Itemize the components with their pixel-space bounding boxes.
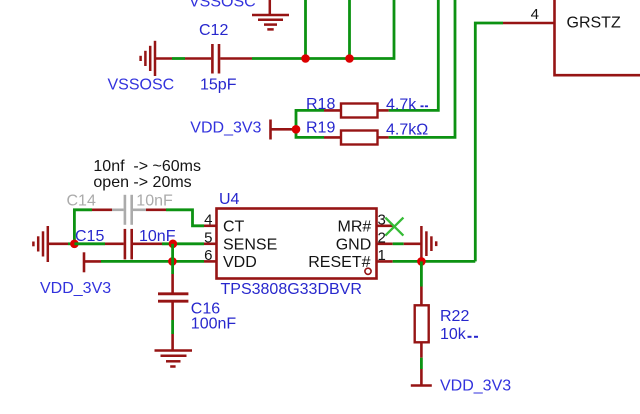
svg-text:VDD_3V3: VDD_3V3 [40, 280, 111, 297]
wire RESET# net green [393, 260, 476, 263]
wire C14 right lead dark red [146, 209, 166, 212]
svg-text:4: 4 [204, 212, 212, 229]
wire vertical net to R18 [389, 0, 439, 110]
svg-text:4.7kΩ: 4.7kΩ [386, 122, 428, 139]
junction C15 right node [169, 240, 178, 249]
wire C14 right green to pin 4 [166, 210, 204, 226]
junction at vertical 1 [301, 54, 310, 63]
RESET# bubble [365, 268, 371, 274]
svg-text:U4: U4 [219, 191, 240, 208]
wire R22 top [420, 261, 423, 286]
resistor R19 [324, 131, 389, 145]
svg-text:2: 2 [378, 229, 386, 246]
svg-text:GRSTZ: GRSTZ [567, 14, 621, 31]
svg-text:R19: R19 [306, 120, 335, 137]
pin 6 stub (VDD) [204, 260, 217, 263]
wire C15 left lead [105, 243, 124, 246]
ground GND1 (earth, below VSSOSC label) [252, 0, 289, 29]
power pin VDD_3V3 (left of R18/R19) [271, 120, 297, 140]
svg-text:TPS3808G33DBVR: TPS3808G33DBVR [221, 281, 362, 298]
capacitor C14 (greyed) [112, 195, 146, 225]
svg-text:4: 4 [531, 6, 539, 23]
wire C15 left green [74, 242, 105, 245]
ground VSSOSC symbol (left-pointing, at C12 left) [141, 41, 155, 76]
svg-text:10k: 10k [440, 326, 467, 343]
ground (right-pointing, at GND pin) [421, 226, 436, 261]
capacitor C15 [125, 229, 132, 260]
svg-text:VDD_3V3: VDD_3V3 [440, 378, 511, 395]
svg-text:10nF: 10nF [136, 193, 173, 210]
no-connect cross on pin 3 [385, 218, 403, 236]
junction RESET#/R22 [417, 257, 426, 266]
wire R22 bottom [420, 342, 423, 357]
svg-text:C12: C12 [199, 22, 228, 39]
svg-text:CT: CT [223, 219, 245, 236]
wire C12 left lead [155, 57, 172, 60]
wire green segment left of C12 [172, 57, 185, 60]
power pin VDD_3V3 (below R22) [411, 384, 432, 387]
svg-text:15pF: 15pF [200, 77, 237, 94]
svg-text:RESET#: RESET# [308, 254, 370, 271]
IC U4 box [217, 209, 377, 279]
pin 1 stub (RESET#) [377, 260, 393, 263]
svg-text:SENSE: SENSE [223, 236, 277, 253]
svg-text:1: 1 [378, 247, 386, 264]
svg-text:VDD: VDD [223, 254, 257, 271]
wire C15 right green to pin 5 [162, 242, 204, 245]
junction VDD/C16 node [168, 257, 177, 266]
wire VDD green to pin 6 [101, 260, 204, 263]
ground (left-pointing, at C15 left) [33, 226, 47, 262]
junction at vertical 2 [345, 54, 354, 63]
svg-text:GND: GND [336, 236, 372, 253]
wire GRSTZ pin lead [503, 22, 554, 25]
resistor R22 [415, 305, 429, 342]
IC box GRSTZ (partial) [555, 0, 640, 75]
capacitor C12 [212, 44, 219, 74]
svg-text:3: 3 [378, 212, 386, 229]
svg-text:MR#: MR# [338, 219, 372, 236]
wire vertical net 2 [348, 0, 351, 59]
wire top horizontal net with corner to vertical [252, 0, 394, 59]
pin 4 stub (CT) [204, 225, 217, 228]
junction C15 left node [70, 240, 79, 249]
resistor R18 [324, 104, 389, 118]
svg-text:5: 5 [204, 229, 212, 246]
wire C16 bottom lead [171, 301, 174, 320]
wire ground to C15 node [48, 243, 68, 246]
svg-text:VSSOSC: VSSOSC [189, 0, 256, 11]
pin 3 stub (MR#) [377, 225, 394, 228]
junction at VDD_3V3 / R18 R19 [292, 125, 301, 134]
wire C14 net left green [74, 210, 92, 244]
wire R18/R19 left green branch [296, 110, 324, 137]
power pin VDD_3V3 (pin6 row) [84, 252, 101, 272]
svg-text:4.7k: 4.7k [386, 97, 417, 114]
svg-text:10nf -> ~60ms: 10nf -> ~60ms [93, 158, 201, 175]
wire vertical net to R19 [389, 0, 455, 137]
capacitor C16 [158, 294, 188, 301]
svg-text:VDD_3V3: VDD_3V3 [190, 120, 261, 137]
svg-text:open -> 20ms: open -> 20ms [93, 174, 191, 191]
svg-text:6: 6 [204, 247, 212, 264]
svg-text:C14: C14 [67, 193, 96, 210]
pin 5 stub (SENSE) [204, 243, 217, 246]
svg-text:VSSOSC: VSSOSC [108, 77, 175, 94]
pin 2 stub (GND) [377, 243, 393, 246]
svg-text:R22: R22 [440, 308, 469, 325]
wire vertical C15/C16 node [171, 244, 174, 274]
ground GND2 (below C16) [155, 351, 193, 367]
wire vertical net 1 [304, 0, 307, 59]
wire C15 right lead [133, 243, 162, 246]
wire C14 left lead dark red [92, 209, 112, 212]
svg-text:100nF: 100nF [191, 316, 237, 333]
wire C12 right lead [220, 57, 252, 60]
wire GRSTZ net vertical [475, 23, 503, 261]
wire C12 left lead inner [185, 57, 211, 60]
